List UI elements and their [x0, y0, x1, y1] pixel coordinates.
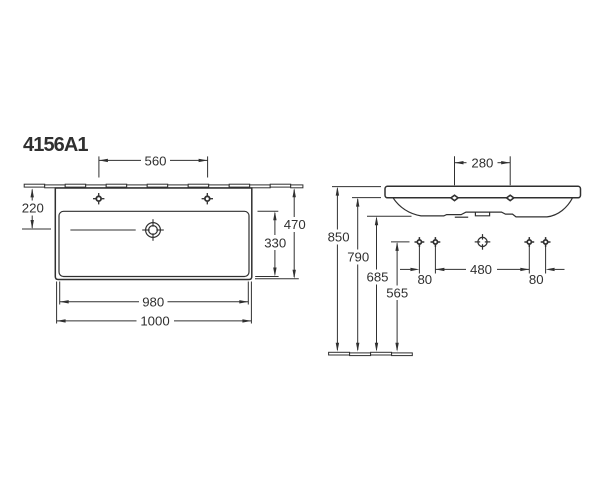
dimension 790 (slab underside height) [347, 198, 381, 352]
dimension 980 (inner width) [60, 282, 249, 310]
floor line (hatched strip) [329, 352, 413, 355]
dimension 685 (basin underside height) [366, 216, 411, 351]
svg-text:4156A1: 4156A1 [23, 134, 88, 156]
dimension 560 (tap hole spacing, plan) [99, 153, 208, 177]
dimension 80 left (fixing hole offset) [400, 247, 435, 288]
tap hole right (plan) [202, 193, 213, 204]
svg-text:560: 560 [144, 153, 166, 168]
dimension 280 (tap spacing, elevation) [455, 155, 511, 185]
svg-text:220: 220 [22, 201, 44, 216]
tap hole left (plan) [93, 193, 104, 204]
wall fixing holes row: right pair [524, 237, 534, 247]
dimension 80 right (fixing hole offset) [529, 247, 565, 288]
svg-text:80: 80 [417, 272, 432, 287]
tap hole marker left (elevation diamond) [451, 195, 458, 200]
svg-text:980: 980 [142, 295, 164, 310]
fixing slot segment (elevation) [455, 216, 468, 218]
dimension 1000 (overall width) [57, 282, 252, 329]
wall line (plan view, hatched tile strip) [24, 184, 303, 188]
tap hole marker right (elevation diamond) [507, 195, 514, 200]
svg-text:480: 480 [470, 262, 492, 277]
svg-text:790: 790 [347, 250, 369, 265]
drain outlet symbol (plan) [142, 219, 164, 241]
svg-text:685: 685 [366, 269, 388, 284]
basin underside profile (elevation) [393, 198, 573, 217]
svg-text:565: 565 [386, 285, 408, 300]
svg-text:280: 280 [471, 155, 493, 170]
dimension 470 (overall depth, plan) [255, 188, 306, 279]
svg-text:470: 470 [284, 217, 306, 232]
overflow/drain centre marker [475, 234, 491, 250]
svg-text:850: 850 [328, 230, 350, 245]
dimension 850 (rim height) [328, 187, 381, 352]
svg-text:330: 330 [264, 235, 286, 250]
dimension 480 (fixing hole spacing) [435, 262, 529, 277]
basin rim slab (elevation) [385, 186, 581, 198]
dimension 330 (bowl depth, plan) [255, 211, 286, 276]
svg-text:80: 80 [529, 272, 544, 287]
drain centreline segment inside bowl [70, 229, 135, 231]
basin outer rim (plan view) [55, 188, 252, 280]
dimension 220 (wall to drain centre) [22, 188, 51, 229]
basin inner bowl (plan view, rounded rect) [59, 211, 249, 276]
wall fixing holes row: left pair [415, 237, 425, 247]
svg-text:1000: 1000 [140, 314, 169, 329]
drain fitting notch (elevation) [475, 212, 489, 216]
dimension 565 (fixing holes height) [386, 242, 409, 352]
